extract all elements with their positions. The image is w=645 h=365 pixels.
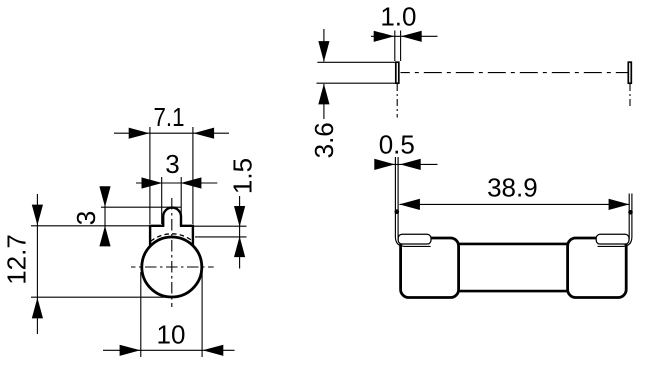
dimension 3 (vertical left): top arrow xyxy=(99,186,110,207)
dimension 1.0: dimension line xyxy=(371,35,438,37)
left clip wire (inner line with bend) xyxy=(398,157,429,244)
dimension 3.6: bottom arrow xyxy=(318,84,329,105)
dimension 10: extension lines xyxy=(140,272,142,357)
dimension 38.9: left arrow (inside pointing left) xyxy=(399,199,420,210)
dimension 1.0: left arrow xyxy=(374,31,395,42)
svg-text:1.5: 1.5 xyxy=(227,158,257,194)
svg-text:38.9: 38.9 xyxy=(487,172,538,202)
dimension 3 (top horizontal): extension lines xyxy=(161,177,163,224)
dimension 1.5 (vertical right): extension lines xyxy=(194,225,247,227)
right clip wire junction blob xyxy=(628,210,633,215)
dimension 1.0: extension lines xyxy=(394,31,396,62)
svg-text:3: 3 xyxy=(165,149,179,179)
svg-text:0.5: 0.5 xyxy=(379,130,415,160)
left clip wire junction blob xyxy=(395,209,400,214)
dimension 3 (top horizontal): left arrow xyxy=(142,177,163,188)
dimension 7.1: dimension line xyxy=(114,132,229,134)
dimension 1.5: top arrow xyxy=(234,206,245,227)
clip leaf top edge xyxy=(317,61,395,63)
wire: short center line below left contact xyxy=(396,84,398,118)
svg-text:10: 10 xyxy=(157,320,186,350)
clip hidden arc (dashed) xyxy=(151,234,193,242)
dimension 0.5: dimension line xyxy=(377,163,438,165)
svg-text:12.7: 12.7 xyxy=(2,234,32,285)
dimension 3.6: top arrow xyxy=(318,41,329,62)
dimension 7.1: left arrow xyxy=(129,128,150,139)
dimension 12.7: dimension line xyxy=(36,194,38,334)
dimension 10: left arrow xyxy=(120,345,141,356)
svg-text:3: 3 xyxy=(71,211,101,225)
clip leaf bottom edge xyxy=(317,82,396,84)
clip tab outline (front view) xyxy=(150,208,193,246)
fuse body circle (front view) xyxy=(142,237,202,297)
dimension 0.5: left arrow xyxy=(374,159,395,170)
dimension 3 (vertical left): extension line over bump xyxy=(101,206,181,208)
wire: horizontal center line of front view xyxy=(131,266,214,268)
dimension 3.6: dimension line upper segment xyxy=(323,29,325,62)
dimension 3 (top horizontal): dimension line xyxy=(136,182,217,184)
svg-text:7.1: 7.1 xyxy=(154,102,185,132)
wire: short center line below right contact xyxy=(629,84,631,108)
dimension 3.6: dimension line lower segment xyxy=(323,84,325,119)
right clip wire (inner line with bend) xyxy=(598,194,630,244)
svg-text:3.6: 3.6 xyxy=(309,122,339,158)
dimension 1.5: bottom arrow xyxy=(234,236,245,257)
dimension 3 (top horizontal): right arrow xyxy=(181,177,202,188)
dimension 7.1: extension lines xyxy=(149,127,151,224)
dimension 0.5: right arrow xyxy=(400,159,421,170)
dimension 38.9: dimension line xyxy=(400,203,630,205)
fuse ceramic body: top edge xyxy=(456,243,569,246)
dimension 1.5: dimension line xyxy=(239,196,241,269)
dimension 1.0: right arrow xyxy=(401,31,422,42)
right clip wire (outer line with bend) xyxy=(598,194,632,247)
right clip tab (side view, over cap corner) xyxy=(596,234,629,244)
clip contact bar (left) xyxy=(396,62,399,83)
wire: horizontal center line between contacts xyxy=(401,72,628,74)
dimension 10: dimension line xyxy=(103,349,235,351)
dimension 3 (vertical left): bottom arrow xyxy=(99,226,110,247)
clip contact bar (right) xyxy=(628,62,631,83)
wire: vertical center line of front view xyxy=(171,198,173,307)
dimension 12.7: bottom extension line xyxy=(31,296,174,298)
dimension 3 (vertical left): dimension line xyxy=(104,190,106,243)
left clip wire (outer line with bend) xyxy=(395,157,430,246)
left clip tab (side view, over cap corner) xyxy=(398,234,431,244)
svg-text:1.0: 1.0 xyxy=(380,2,416,32)
left end cap of fuse xyxy=(401,238,459,298)
dimension 12.7: top extension line (shared shoulder line) xyxy=(31,225,150,227)
right end cap of fuse xyxy=(568,238,627,298)
dimension 10: right arrow xyxy=(203,345,224,356)
dimension 7.1: right arrow xyxy=(193,128,214,139)
fuse ceramic body: bottom edge xyxy=(456,290,569,293)
dimension 38.9: right arrow (inside pointing right) xyxy=(609,199,630,210)
dimension 12.7: bottom arrow xyxy=(32,298,43,319)
dimension 12.7: top arrow xyxy=(32,205,43,226)
